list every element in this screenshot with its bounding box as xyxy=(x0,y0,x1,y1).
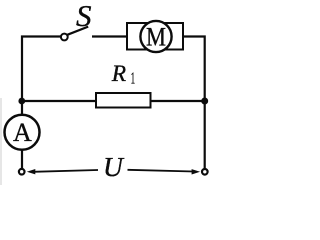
wire: resistor to right junction xyxy=(151,100,205,102)
svg-text:1: 1 xyxy=(131,69,136,88)
voltage U measurement arrow right xyxy=(128,169,201,174)
node junction right xyxy=(201,98,208,105)
voltage U measurement arrow left xyxy=(27,169,98,174)
svg-text:U: U xyxy=(103,151,125,182)
svg-text:R: R xyxy=(111,61,126,87)
svg-text:S: S xyxy=(76,0,92,33)
wire: ammeter to left terminal xyxy=(21,151,23,169)
node terminal left xyxy=(19,169,25,175)
wire: left junction down to ammeter xyxy=(21,101,23,115)
wire: motor to top-right corner down right rail xyxy=(184,37,205,169)
wire: left junction to resistor xyxy=(22,100,96,102)
switch S xyxy=(61,0,92,40)
node junction left xyxy=(18,98,25,105)
wire top-left: left rail top corner to switch xyxy=(22,37,61,102)
label U xyxy=(103,151,125,182)
wire: switch to motor xyxy=(92,35,127,37)
ammeter A xyxy=(5,115,40,150)
motor M xyxy=(127,21,183,52)
svg-text:M: M xyxy=(146,23,166,52)
svg-text:A: A xyxy=(13,118,32,147)
node terminal right xyxy=(202,169,208,175)
resistor R1 xyxy=(96,61,151,108)
